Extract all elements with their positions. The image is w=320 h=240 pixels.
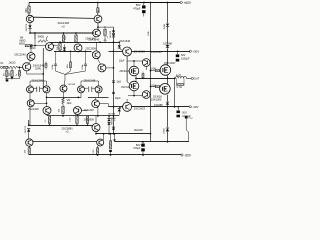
svg-text:2SA1360: 2SA1360 — [85, 37, 96, 41]
svg-text:2SC2909: 2SC2909 — [85, 46, 96, 50]
svg-text:1S1588: 1S1588 — [110, 30, 112, 38]
svg-text:+60V: +60V — [184, 1, 192, 5]
svg-text:1S1588: 1S1588 — [68, 84, 76, 86]
svg-text:2SA1360: 2SA1360 — [151, 98, 162, 102]
svg-text:1S2076: 1S2076 — [26, 23, 28, 31]
svg-text:1kΩ: 1kΩ — [116, 80, 121, 84]
svg-text:-30V: -30V — [192, 105, 198, 109]
svg-text:2SA1348: 2SA1348 — [32, 78, 44, 82]
svg-text:2Ω/2W: 2Ω/2W — [134, 128, 143, 132]
svg-text:OUT: OUT — [194, 77, 200, 81]
svg-text:1k: 1k — [16, 74, 18, 76]
svg-text:2SA1348: 2SA1348 — [120, 39, 131, 43]
svg-text:1SΩB: 1SΩB — [164, 128, 166, 134]
svg-text:(GR): (GR) — [35, 67, 41, 71]
svg-text:1µH: 1µH — [176, 74, 181, 77]
svg-text:1kΩ: 1kΩ — [67, 101, 72, 105]
svg-text:2SA1348: 2SA1348 — [84, 78, 96, 82]
svg-text:2SA1360: 2SA1360 — [134, 50, 146, 54]
svg-text:×2: ×2 — [66, 129, 70, 133]
svg-text:680Ω: 680Ω — [19, 42, 25, 45]
svg-text:2SJ313: 2SJ313 — [121, 86, 130, 89]
svg-text:47k: 47k — [104, 40, 107, 42]
svg-text:470µF: 470µF — [133, 6, 141, 10]
svg-text:10µF: 10µF — [115, 96, 121, 100]
svg-text:0.68µ: 0.68µ — [82, 63, 84, 69]
svg-text:1S2076: 1S2076 — [25, 125, 27, 133]
svg-text:2SK2013: 2SK2013 — [119, 70, 130, 73]
svg-text:4.7Ω: 4.7Ω — [176, 86, 181, 89]
svg-text:15ΩB: 15ΩB — [164, 23, 166, 29]
svg-text:2.2Ω: 2.2Ω — [70, 117, 72, 122]
svg-text:×2: ×2 — [62, 25, 66, 29]
svg-text:1S1588: 1S1588 — [108, 113, 116, 115]
svg-text:+30V: +30V — [192, 50, 199, 54]
svg-text:470µF: 470µF — [133, 146, 141, 150]
svg-text:0.68µ: 0.68µ — [52, 63, 54, 69]
svg-text:1S1588: 1S1588 — [154, 103, 163, 107]
svg-text:1S1588: 1S1588 — [108, 118, 116, 120]
svg-text:1kΩ/2: 1kΩ/2 — [9, 60, 17, 64]
svg-text:47k: 47k — [4, 73, 6, 76]
svg-text:2SA1348: 2SA1348 — [28, 107, 39, 111]
svg-text:1S1588: 1S1588 — [163, 41, 172, 45]
svg-text:680: 680 — [25, 8, 28, 13]
svg-text:2SC2909: 2SC2909 — [84, 118, 95, 121]
svg-text:390Ω: 390Ω — [30, 47, 36, 50]
svg-text:IN: IN — [1, 61, 4, 65]
svg-text:2SC4453: 2SC4453 — [151, 50, 162, 54]
svg-text:10µF: 10µF — [119, 59, 125, 62]
svg-text:1000µF: 1000µF — [181, 58, 190, 61]
svg-text:-60V: -60V — [184, 153, 192, 157]
svg-text:2SC2240: 2SC2240 — [14, 53, 26, 57]
svg-text:300Ω: 300Ω — [38, 35, 45, 39]
